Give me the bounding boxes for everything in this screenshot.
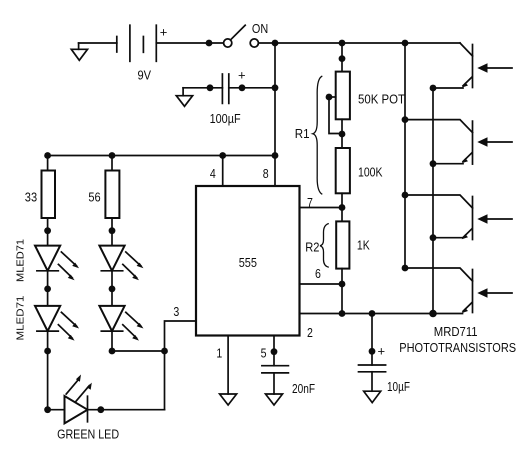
wire collector rail [404, 43, 406, 268]
ground (20nF) [266, 394, 283, 405]
node C1 right [239, 84, 246, 91]
svg-text:20nF: 20nF [292, 381, 315, 396]
svg-text:MRD711: MRD711 [434, 324, 478, 339]
wire 1K to pin2 rail [341, 269, 343, 314]
wire pin2 rail to C3 [371, 314, 373, 366]
green LED D5 [65, 375, 92, 424]
svg-text:PHOTOTRANSISTORS: PHOTOTRANSISTORS [399, 340, 516, 355]
svg-text:MLED71: MLED71 [14, 295, 26, 340]
node pin7 junction [339, 204, 346, 211]
node pin6 junction [339, 281, 346, 288]
node pot top [339, 55, 346, 62]
node col1 bottom [44, 348, 51, 355]
wire D4 to pin3 node [111, 331, 113, 351]
node pin8 junction [272, 152, 279, 159]
wire D2 down to green LED row [47, 331, 49, 410]
node Q2 collector [402, 116, 409, 123]
svg-text:4: 4 [210, 166, 216, 181]
capacitor C3 10uF [359, 344, 411, 395]
phototransistor Q4 [405, 268, 512, 313]
node pot top rail [339, 40, 346, 47]
svg-text:+: + [378, 344, 386, 359]
wire D3 to D4 [111, 271, 113, 306]
LED D4 MLED71 (col2 bottom) [99, 306, 143, 341]
svg-text:MLED71: MLED71 [14, 239, 26, 282]
node rail2 col2 [109, 152, 116, 159]
node Q1 emitter [430, 85, 437, 92]
svg-text:50K POT: 50K POT [358, 91, 405, 106]
brace R1 [313, 76, 323, 194]
ground (10uF) [364, 391, 381, 402]
brace R2 [320, 224, 329, 268]
wire pin 5 [273, 336, 275, 366]
wire pin 6 [300, 283, 343, 285]
svg-text:56: 56 [88, 190, 100, 205]
node collector rail top [402, 40, 409, 47]
svg-text:2: 2 [307, 325, 313, 340]
wire switch to top rail [258, 42, 460, 44]
wire ground to capacitor C1 [183, 87, 222, 89]
node C1 left [207, 84, 214, 91]
resistor 100K [336, 148, 383, 193]
node C3 plus [369, 348, 376, 355]
phototransistor Q1 [433, 43, 512, 88]
wire column2 upper [111, 156, 113, 171]
node Q4 collector [402, 265, 409, 272]
svg-text:555: 555 [239, 255, 257, 270]
node below resistor 33 [44, 227, 51, 234]
LED D1 MLED71 (col1 top) [35, 246, 79, 281]
node Q3 emitter [430, 234, 437, 241]
svg-text:R2: R2 [305, 240, 319, 255]
wire pin 3 [165, 321, 197, 410]
wire D1 to D2 [47, 271, 49, 306]
wire C2 to ground [273, 373, 275, 394]
LED D2 MLED71 (col1 bottom) [35, 306, 79, 341]
wire battery negative to ground [79, 42, 117, 44]
wire C1 to supply [229, 87, 275, 89]
wire emitter rail [432, 88, 434, 314]
node green LED anode [44, 406, 51, 413]
node between D1 D2 [44, 286, 51, 293]
node col2 bottom [109, 348, 116, 355]
pot wiper [326, 94, 342, 134]
node pin3/col2 [161, 348, 168, 355]
switch S1 ON [224, 22, 269, 47]
phototransistor Q3 [405, 195, 512, 240]
node Q2 emitter [430, 160, 437, 167]
node Q3 collector [402, 192, 409, 199]
svg-text:9V: 9V [138, 68, 152, 82]
svg-text:+: + [160, 24, 168, 39]
node pin2 junction [339, 310, 346, 317]
wire anode [48, 409, 65, 411]
ground (battery negative) [71, 43, 87, 60]
svg-text:GREEN LED: GREEN LED [57, 426, 119, 441]
wire battery to switch [156, 42, 223, 44]
wire resistor56 to LED [111, 218, 113, 246]
svg-text:6: 6 [315, 266, 321, 281]
battery B1 9V [117, 24, 168, 82]
node between D3 D4 [109, 286, 116, 293]
capacitor C1 100uF [210, 68, 246, 127]
wire col2 to pin3 vertical [112, 350, 165, 352]
wire pin 2 [300, 313, 463, 315]
wire pin 7 [300, 207, 343, 209]
IC U1 555 [196, 186, 300, 336]
resistor 33 [25, 171, 55, 219]
wire pin 4 [222, 156, 224, 187]
svg-text:100K: 100K [358, 165, 383, 180]
svg-text:8: 8 [263, 166, 269, 181]
LED D3 MLED71 (col2 top) [99, 246, 143, 281]
node 10uF top [369, 310, 376, 317]
wire column1 upper [47, 156, 49, 171]
node green LED cathode [97, 406, 104, 413]
resistor R2 1K [336, 221, 370, 268]
wire pot to 100K [341, 119, 343, 148]
node pot bottom / wiper junction [339, 131, 346, 138]
svg-text:ON: ON [252, 22, 268, 36]
svg-text:R1: R1 [295, 126, 310, 141]
node rail2 left [44, 152, 51, 159]
node pin5 [271, 348, 278, 355]
wire vertical supply x=275 [274, 43, 276, 186]
svg-text:3: 3 [173, 304, 179, 319]
node Q4 emitter / pin2 rail [429, 310, 437, 318]
capacitor C2 20nF [262, 366, 315, 396]
svg-text:1: 1 [216, 346, 222, 361]
wire top to pot [341, 43, 343, 72]
node (switch output) [272, 40, 279, 47]
phototransistor Q2 [405, 120, 512, 165]
svg-text:1K: 1K [357, 238, 370, 253]
wire 100K to 1K [341, 193, 343, 221]
resistor 56 [88, 171, 119, 219]
node (battery/switch junction) [206, 40, 213, 47]
ground (100uF) [176, 88, 192, 107]
svg-text:+: + [238, 68, 246, 83]
wire C3 to ground [371, 372, 373, 391]
svg-text:100µF: 100µF [210, 111, 241, 126]
ground (pin 1) [220, 394, 237, 405]
wire resistor33 to LED [47, 218, 49, 246]
svg-text:7: 7 [307, 195, 313, 210]
svg-text:5: 5 [261, 346, 267, 361]
potentiometer 50K POT [336, 72, 405, 120]
node below resistor 56 [109, 227, 116, 234]
svg-text:33: 33 [25, 190, 37, 205]
svg-text:10µF: 10µF [387, 379, 410, 394]
node pin4 junction [219, 152, 226, 159]
wire cathode to pin3 vertical [88, 409, 165, 411]
wire pin 1 [227, 336, 229, 395]
node supply/C1 junction [272, 84, 279, 91]
wire rail 2 (Vcc rail to 555) [48, 155, 275, 157]
